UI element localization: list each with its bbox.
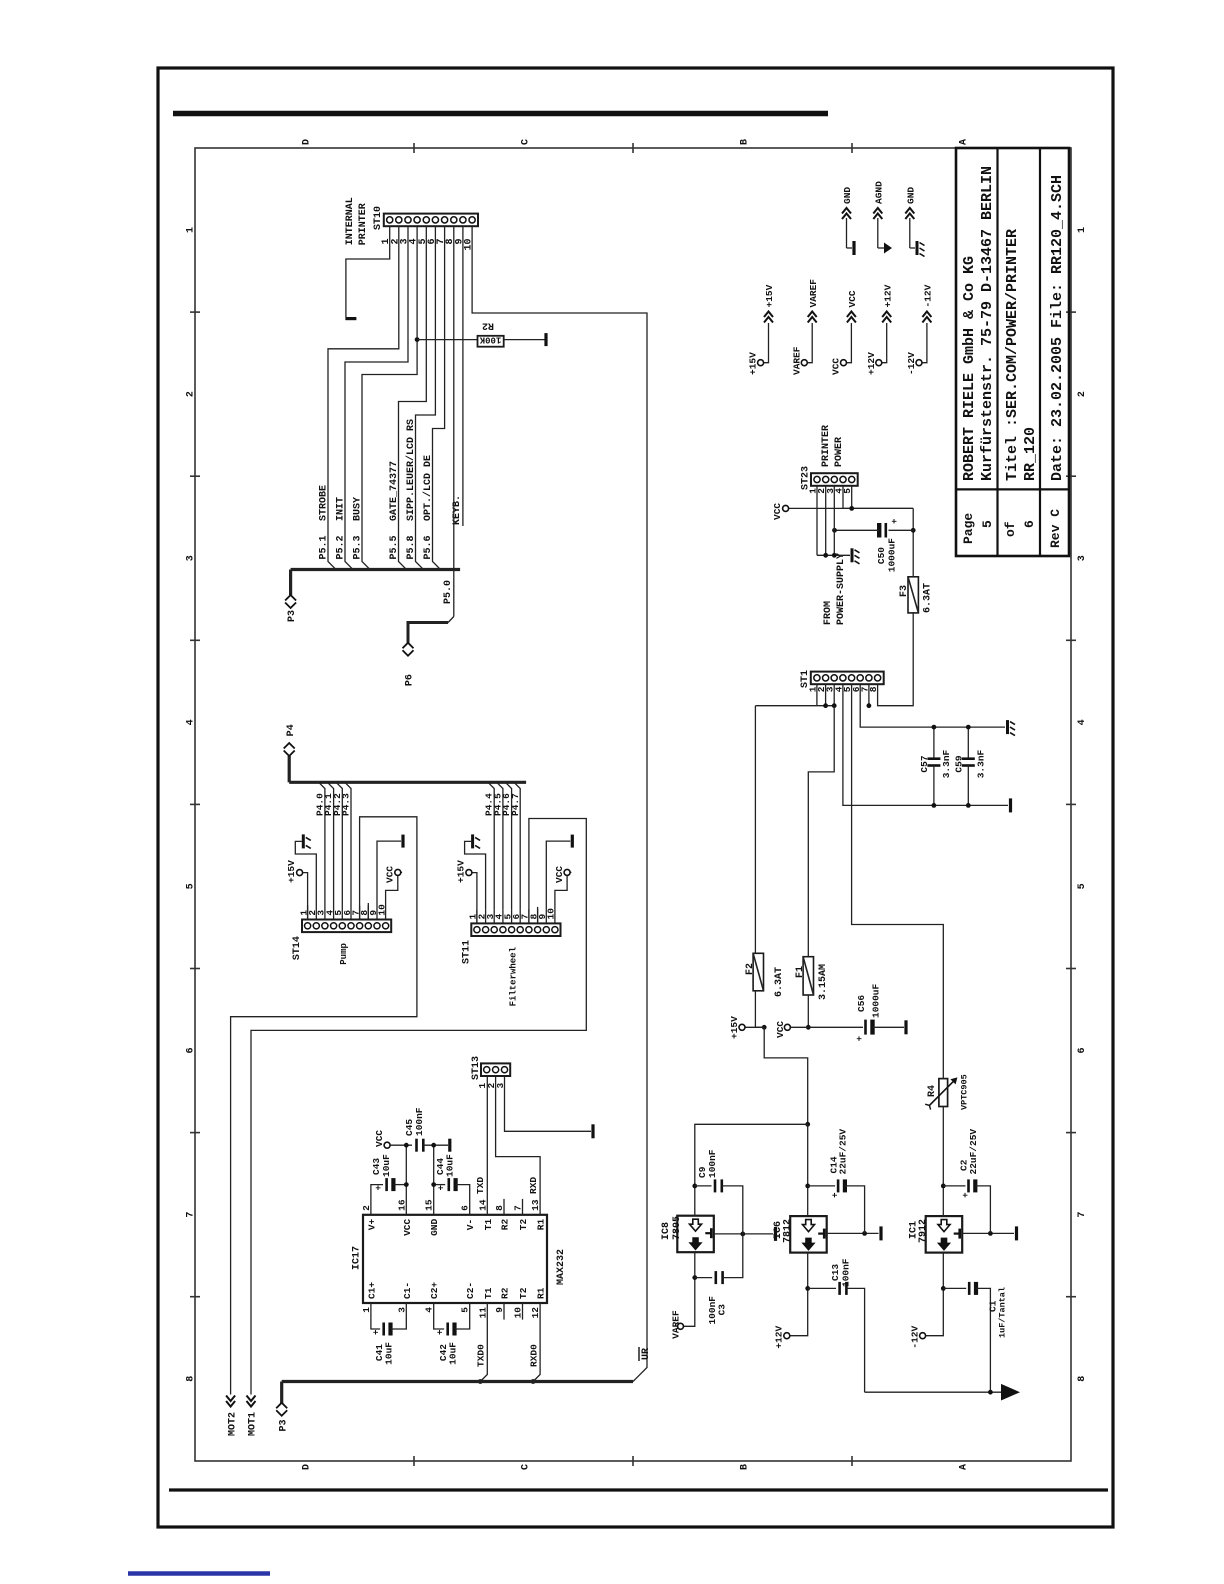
capacitor C9 100nF: [695, 1185, 712, 1187]
svg-text:C3: C3: [717, 1304, 728, 1316]
svg-text:ST1: ST1: [800, 670, 811, 688]
svg-text:100nF: 100nF: [707, 1149, 718, 1178]
wire P3 port stem: [289, 570, 292, 596]
wire ST11 pin7 MOT1 loop: [251, 819, 586, 1395]
VCC port ST11: [564, 869, 570, 875]
svg-text:A: A: [959, 1464, 970, 1470]
power port +12V: [876, 360, 882, 366]
wire ST10 pin6 signal SIPP.LEUER/LCD RS: [416, 226, 436, 569]
svg-text:F2: F2: [745, 963, 756, 975]
capacitor C45 100nF: [415, 1139, 418, 1152]
svg-text:R1: R1: [536, 1287, 547, 1299]
heavy rule line near portrait top: [173, 111, 828, 117]
wire ST11 pin7 MOT loop: [470, 922, 472, 924]
svg-text:VCC: VCC: [831, 358, 842, 375]
ground legend AGND: [877, 218, 879, 248]
capacitor C50 1000uF: [889, 529, 914, 531]
svg-text:7: 7: [186, 1212, 197, 1218]
power port -12V: [916, 360, 922, 366]
svg-text:B: B: [740, 139, 751, 145]
port arrow MOT1: [247, 1401, 256, 1407]
svg-text:6: 6: [186, 1047, 197, 1053]
svg-text:RR_120: RR_120: [1022, 427, 1039, 481]
junction C50: [911, 528, 916, 533]
wire C45 to gnd bar: [423, 1144, 448, 1146]
svg-text:ST13: ST13: [471, 1056, 482, 1080]
connector ST1 FROM POWER-SUPPLY: [811, 672, 884, 685]
ground symbol ST11 pin2: [471, 834, 474, 848]
outer photocopy border: [158, 68, 1113, 1527]
svg-text:F3: F3: [899, 585, 910, 597]
svg-text:ST10: ST10: [373, 206, 384, 230]
connector ST10 INTERNAL PRINTER: [384, 214, 478, 227]
svg-text:8: 8: [186, 1376, 197, 1382]
svg-text:P4.3: P4.3: [341, 793, 352, 816]
wire VCC rail to C56: [808, 1026, 863, 1028]
power port VAREF: [801, 360, 807, 366]
wire ST11 pin10 to VCC port: [555, 872, 572, 909]
svg-text:VCC: VCC: [402, 1219, 413, 1236]
inner drawing frame: [195, 148, 1071, 1461]
terminator bar R2: [544, 333, 547, 346]
svg-text:F1: F1: [795, 966, 806, 978]
svg-text:Kurfürstenstr. 75-79 D-13467: Kurfürstenstr. 75-79 D-13467 BERLIN: [979, 166, 996, 481]
wire IC6 input from rail: [807, 1124, 809, 1216]
fuse F1 3.15AM: [803, 957, 813, 995]
svg-text:C13: C13: [830, 1264, 841, 1281]
svg-text:VCC: VCC: [554, 866, 565, 883]
wire TXD IC17 pin14 to ST13 pin1: [486, 1076, 488, 1215]
IC IC17 MAX232 body: [363, 1215, 547, 1303]
regulator IC6 7812: [790, 1216, 827, 1253]
svg-text:GATE_74377: GATE_74377: [389, 461, 400, 521]
connector ST13: [481, 1063, 510, 1076]
svg-text:100nF: 100nF: [841, 1258, 852, 1287]
svg-text:VCC: VCC: [775, 1021, 786, 1038]
svg-text:100K: 100K: [479, 335, 501, 345]
wire IC6 output to +12V: [790, 1253, 808, 1336]
svg-text:P5.5: P5.5: [389, 535, 400, 559]
svg-text:22uF/25V: 22uF/25V: [838, 1129, 849, 1175]
svg-text:T2: T2: [518, 1219, 529, 1231]
wires ST11 pins3-6 to P4 bus: [488, 782, 494, 909]
wire ST14 pin7 MOT2 loop: [231, 817, 417, 1395]
svg-text:ST14: ST14: [292, 936, 303, 960]
svg-text:P4: P4: [286, 724, 297, 736]
svg-text:7: 7: [1077, 1212, 1088, 1218]
svg-text:10uF: 10uF: [445, 1154, 456, 1177]
svg-text:5: 5: [1077, 883, 1088, 889]
wire IC1 gnd stem: [962, 1232, 1014, 1234]
svg-text:VCC: VCC: [385, 866, 396, 883]
gnd bar below C45: [448, 1139, 451, 1152]
svg-text:Filterwheel: Filterwheel: [508, 946, 518, 1006]
svg-text:T2: T2: [518, 1287, 529, 1299]
svg-text:3: 3: [1077, 555, 1088, 561]
VAREF port: [678, 1323, 684, 1329]
svg-text:POWER: POWER: [834, 437, 845, 467]
svg-text:3.3nF: 3.3nF: [976, 749, 987, 778]
svg-text:7812: 7812: [783, 1219, 794, 1243]
capacitor C3 100nF: [695, 1277, 712, 1279]
svg-text:V-: V-: [465, 1219, 476, 1230]
svg-text:IC17: IC17: [352, 1246, 363, 1270]
capacitor C56 1000uF: [864, 1020, 867, 1035]
svg-text:UR: UR: [641, 1348, 652, 1360]
svg-text:C1-: C1-: [402, 1282, 413, 1299]
svg-text:Pump: Pump: [339, 943, 349, 965]
svg-text:B: B: [740, 1464, 751, 1470]
svg-text:T1: T1: [483, 1287, 494, 1299]
svg-text:10: 10: [464, 239, 475, 251]
svg-text:-12V: -12V: [923, 284, 934, 307]
svg-text:100nF: 100nF: [414, 1107, 425, 1136]
svg-text:10uF: 10uF: [448, 1342, 459, 1365]
svg-text:PRINTER: PRINTER: [821, 425, 832, 467]
wire RXD IC17 pin13 to ST13 pin2: [496, 1076, 540, 1215]
svg-text:P4.7: P4.7: [510, 793, 521, 816]
port arrow MOT2: [226, 1401, 235, 1407]
gnd bar IC8: [774, 1227, 777, 1241]
power port VCC: [841, 360, 847, 366]
svg-text:MOT2: MOT2: [227, 1412, 238, 1436]
wire F2 to +15V node: [755, 991, 764, 1028]
wire R4 to ST1 pin5: [852, 684, 944, 1078]
svg-text:C59: C59: [954, 755, 965, 772]
svg-text:10uF: 10uF: [384, 1342, 395, 1365]
wire C43 to VCC pin16 wire: [394, 1184, 407, 1186]
stub IC17 pin9 R2 bottom: [503, 1303, 505, 1320]
junction R2 on pin4 wire: [415, 337, 420, 342]
gnd bar ST13: [591, 1124, 594, 1138]
resistor R2 100K: [417, 339, 477, 341]
svg-text:P3: P3: [287, 610, 298, 622]
VCC port at C45 column: [384, 1142, 390, 1148]
wire ST10 pin7 signal OPT./LCD DE: [433, 226, 445, 569]
svg-text:P5.2: P5.2: [336, 535, 347, 559]
svg-text:3.15AM: 3.15AM: [818, 964, 829, 1000]
svg-text:+: +: [436, 1330, 446, 1335]
svg-text:C: C: [521, 139, 532, 145]
bus P3 lower vertical thick: [282, 1380, 633, 1383]
capacitor C13 100nF: [808, 1287, 836, 1289]
wire VCC column: [391, 1144, 413, 1146]
wire +15V step to regulators input rail: [764, 1027, 808, 1124]
svg-text:+15V: +15V: [748, 352, 759, 375]
svg-text:AGND: AGND: [873, 181, 884, 204]
svg-text:STROBE: STROBE: [319, 485, 330, 521]
svg-text:10uF: 10uF: [381, 1154, 392, 1177]
svg-text:C50: C50: [876, 547, 887, 564]
junction C9: [692, 1184, 697, 1189]
resistor R4 VPTC905: [939, 1079, 948, 1107]
svg-text:+15V: +15V: [764, 284, 775, 307]
wire IC1 output to -12V: [926, 1253, 943, 1336]
wire TXD0 IC17 pin11 to bus: [480, 1303, 487, 1382]
wire RXD0 IC17 pin12 to bus: [533, 1303, 540, 1382]
svg-text:OPT./LCD DE: OPT./LCD DE: [422, 455, 434, 521]
svg-text:VCC: VCC: [772, 503, 783, 520]
svg-text:+: +: [855, 1036, 865, 1041]
svg-text:IC8: IC8: [661, 1222, 672, 1240]
svg-text:ST11: ST11: [461, 940, 472, 964]
wire P4 port stem: [288, 756, 291, 782]
bus P4 vertical thick: [289, 781, 526, 784]
svg-text:1000uF: 1000uF: [871, 983, 882, 1018]
port arrow P4: [284, 751, 295, 757]
port arrow P3 (lower): [280, 1382, 283, 1404]
svg-text:R2: R2: [500, 1287, 511, 1299]
svg-text:22uF/25V: 22uF/25V: [968, 1129, 979, 1175]
svg-text:of: of: [1003, 521, 1018, 537]
svg-text:R1: R1: [536, 1219, 547, 1231]
+15V port ST11: [466, 870, 472, 876]
svg-text:5: 5: [980, 520, 995, 528]
regulator IC8 7805: [677, 1216, 714, 1253]
svg-text:GND: GND: [905, 187, 916, 204]
svg-text:TXD0: TXD0: [476, 1344, 487, 1367]
wire ST11 pin9 to terminator: [546, 841, 570, 909]
svg-text:+: +: [890, 519, 900, 524]
svg-text:Rev C: Rev C: [1048, 509, 1063, 548]
svg-text:C56: C56: [856, 995, 867, 1012]
wires ST23 pins1-3 to gnd rail: [816, 486, 818, 556]
wire IC8 output to VAREF: [684, 1252, 695, 1326]
wires ST23 pins4-5 to VCC rail: [842, 486, 844, 509]
wire ST1 pins1-3 common rail: [816, 684, 818, 706]
bus P5 vertical thick: [291, 568, 461, 571]
svg-text:INIT: INIT: [336, 497, 347, 521]
svg-text:C57: C57: [919, 755, 930, 772]
wires ST11 stub pins: [476, 909, 478, 923]
stub IC17 pin8 R2: [503, 1199, 505, 1215]
svg-text:4: 4: [1077, 719, 1088, 725]
capacitor C43 10uF: [371, 1185, 383, 1215]
svg-text:R2: R2: [500, 1219, 511, 1231]
junction regulator rail: [805, 1122, 810, 1127]
svg-text:Date: 23.02.2005 File: RR120: Date: 23.02.2005 File: RR120_4.SCH: [1049, 175, 1066, 481]
svg-text:P6: P6: [405, 674, 416, 686]
+15V supply port: [739, 1024, 745, 1030]
regulator IC1 7912: [926, 1216, 963, 1253]
capacitor C41 10uF: [371, 1303, 380, 1329]
svg-text:D: D: [302, 139, 313, 145]
wire ST13 pin3 to gnd bar: [505, 1076, 592, 1131]
VCC port ST14: [395, 869, 401, 875]
wire C44 to IC17 pin6 V-: [456, 1185, 470, 1215]
svg-text:GND: GND: [429, 1219, 440, 1236]
svg-text:TXD: TXD: [475, 1177, 486, 1194]
svg-text:+12V: +12V: [866, 352, 877, 375]
svg-text:+: +: [372, 1330, 382, 1335]
svg-text:7805: 7805: [672, 1216, 683, 1240]
svg-text:+: +: [961, 1193, 971, 1198]
wire C41 to pin3: [391, 1303, 407, 1329]
arrow to next page: [1001, 1384, 1020, 1401]
capacitor C14 22uF/25V: [808, 1185, 835, 1187]
svg-text:6: 6: [1077, 1047, 1088, 1053]
junction C13: [805, 1286, 810, 1291]
gnd bar IC6: [879, 1226, 882, 1240]
capacitor C1 1uF/Tantal: [943, 1287, 966, 1289]
wire F3 to VCC printer rail: [912, 508, 914, 576]
wire R2 to terminator: [504, 339, 545, 341]
wire IC17 pin15 GND: [433, 1145, 435, 1215]
svg-text:P5.3: P5.3: [353, 535, 364, 559]
fuse F3 6.3AT: [908, 577, 918, 613]
svg-text:ST23: ST23: [801, 466, 812, 490]
gnd bar IC1: [1015, 1226, 1018, 1240]
svg-text:MOT1: MOT1: [248, 1412, 259, 1436]
terminator bar rail pin4: [1009, 798, 1012, 812]
svg-text:7912: 7912: [918, 1219, 929, 1243]
svg-text:MAX232: MAX232: [556, 1249, 567, 1285]
ground symbol ST14 pin2: [302, 834, 305, 848]
wire ST10 pin1 to terminator: [346, 226, 390, 317]
wire P6 stub thick: [408, 623, 448, 643]
svg-text:POWER-SUPPLY: POWER-SUPPLY: [836, 553, 847, 625]
wire ST14 pin7 MOT loop: [359, 919, 361, 921]
svg-text:VCC: VCC: [847, 290, 858, 307]
svg-text:6.3AT: 6.3AT: [923, 583, 934, 613]
wires ST14 pins3-6 to P4 bus: [319, 782, 325, 905]
svg-text:V+: V+: [366, 1219, 377, 1231]
svg-text:1: 1: [1077, 227, 1088, 233]
svg-text:-12V: -12V: [906, 352, 917, 375]
capacitor C57 3.3nF: [933, 727, 935, 759]
wire IC1 input from R4: [942, 1107, 944, 1217]
title block: [956, 148, 1069, 556]
svg-text:5: 5: [186, 883, 197, 889]
wires ST14 stub pins: [307, 906, 309, 920]
VCC port printer: [783, 505, 789, 511]
wire IC8 input from rail: [695, 1124, 808, 1215]
svg-text:P5.0: P5.0: [443, 580, 454, 604]
svg-text:R2: R2: [482, 320, 494, 331]
capacitor C44 10uF: [434, 1184, 446, 1186]
wire ST10 pin4 signal BUSY: [362, 226, 417, 569]
svg-text:VAREF: VAREF: [791, 346, 802, 375]
svg-text:6.3AT: 6.3AT: [774, 967, 785, 997]
wire C56 to gnd bar: [873, 1026, 905, 1028]
svg-text:1: 1: [186, 227, 197, 233]
connector ST14 Pump: [302, 920, 391, 933]
wire ST14 pin10 to VCC port: [386, 872, 403, 905]
fuse F2 6.3AT: [753, 953, 763, 991]
svg-text:1000uF: 1000uF: [887, 538, 898, 573]
svg-text:Page: Page: [961, 513, 976, 544]
svg-text:A: A: [959, 139, 970, 145]
ground legend GND: [846, 218, 848, 248]
svg-text:GND: GND: [842, 187, 853, 204]
svg-text:R4: R4: [927, 1085, 938, 1097]
wire ST1 pin6 to upper gnd rail: [860, 684, 1005, 727]
wire IC6 gnd stem: [827, 1232, 879, 1234]
+15V port ST14: [297, 870, 303, 876]
svg-text:P3: P3: [279, 1419, 290, 1431]
svg-text:P5.1: P5.1: [319, 535, 330, 559]
svg-text:+: +: [831, 1193, 841, 1198]
svg-text:C: C: [521, 1464, 532, 1470]
wire KEYB from ST10 pin9 (stub): [462, 226, 464, 526]
svg-text:+: +: [374, 1185, 384, 1190]
svg-text:VPTC905: VPTC905: [960, 1074, 970, 1110]
junction C1: [941, 1286, 946, 1291]
wire ST14 pin2 to gnd: [295, 841, 316, 905]
medium rule line near portrait bottom: [169, 1488, 1108, 1491]
port arrow P6: [403, 650, 414, 656]
svg-text:2: 2: [1077, 391, 1088, 397]
gnd rail to arrow: [865, 1391, 1002, 1393]
svg-text:3.3nF: 3.3nF: [941, 749, 952, 778]
junction C14: [805, 1184, 810, 1189]
stub IC17 pin10 T2 bottom: [522, 1303, 524, 1320]
wire IC8 gnd stem: [714, 1233, 773, 1235]
svg-text:RXD: RXD: [528, 1177, 539, 1194]
svg-text:P5.6: P5.6: [423, 535, 434, 559]
stub IC17 pin7 T2: [522, 1199, 524, 1215]
svg-text:PRINTER: PRINTER: [358, 203, 369, 245]
wire F1 branch from pins2-3 junction: [808, 706, 834, 957]
svg-text:4: 4: [186, 719, 197, 725]
wire to fuse F2: [754, 706, 756, 954]
svg-text:FROM: FROM: [823, 601, 834, 625]
svg-text:ROBERT RIELE GmbH & Co KG: ROBERT RIELE GmbH & Co KG: [961, 256, 978, 481]
svg-text:8: 8: [1077, 1376, 1088, 1382]
svg-text:1uF/Tantal: 1uF/Tantal: [998, 1287, 1008, 1338]
svg-text:Titel :SER.COM/POWER/PRINTER: Titel :SER.COM/POWER/PRINTER: [1004, 229, 1021, 481]
svg-text:3: 3: [186, 555, 197, 561]
power port +15V: [758, 360, 764, 366]
svg-text:C2-: C2-: [465, 1282, 476, 1299]
wire ST14 pin1 to +15V port: [303, 873, 308, 906]
wire ST10 pin10 to UR line: [472, 226, 647, 1381]
wire P5.0 from ST10 pin8 to P6: [453, 226, 455, 616]
svg-text:+15V: +15V: [286, 860, 297, 883]
wire ST1 pins7-8 to F3: [868, 684, 870, 706]
wire ST14 pin9 to terminator: [377, 841, 401, 905]
VCC supply port: [784, 1024, 790, 1030]
ground legend MGND: [909, 218, 911, 248]
svg-text:VAREF: VAREF: [671, 1310, 682, 1339]
junction C2: [941, 1184, 946, 1189]
svg-text:C2+: C2+: [429, 1282, 440, 1299]
svg-text:2: 2: [186, 391, 197, 397]
svg-text:6: 6: [1022, 520, 1037, 528]
wire ST1 pin4 to lower gnd rail: [843, 684, 1008, 805]
svg-text:+: +: [437, 1185, 447, 1190]
svg-text:T1: T1: [483, 1219, 494, 1231]
wire IC17 pin16 VCC: [405, 1145, 407, 1215]
capacitor C2 22uF/25V: [943, 1185, 965, 1187]
scan artifact blue underline (bottom-left of portrait page): [128, 1571, 270, 1576]
wire ST11 pin1 to +15V port: [472, 873, 477, 910]
svg-text:+15V: +15V: [729, 1016, 740, 1039]
-12V port: [920, 1333, 926, 1339]
svg-text:+15V: +15V: [455, 860, 466, 883]
svg-text:INTERNAL: INTERNAL: [345, 197, 356, 245]
wire ST10 pin2 signal STROBE: [328, 226, 399, 569]
svg-text:C1+: C1+: [366, 1282, 377, 1299]
svg-text:+12V: +12V: [774, 1325, 785, 1348]
wire C42 to pin5: [455, 1303, 470, 1329]
connector ST11 Filterwheel: [471, 923, 560, 936]
wire F1 to VCC node: [807, 995, 809, 1027]
wire ST10 pin3 signal INIT: [345, 226, 408, 569]
svg-text:-12V: -12V: [910, 1325, 921, 1348]
+12V port: [784, 1333, 790, 1339]
svg-text:SIPP.LEUER/LCD RS: SIPP.LEUER/LCD RS: [405, 419, 417, 521]
